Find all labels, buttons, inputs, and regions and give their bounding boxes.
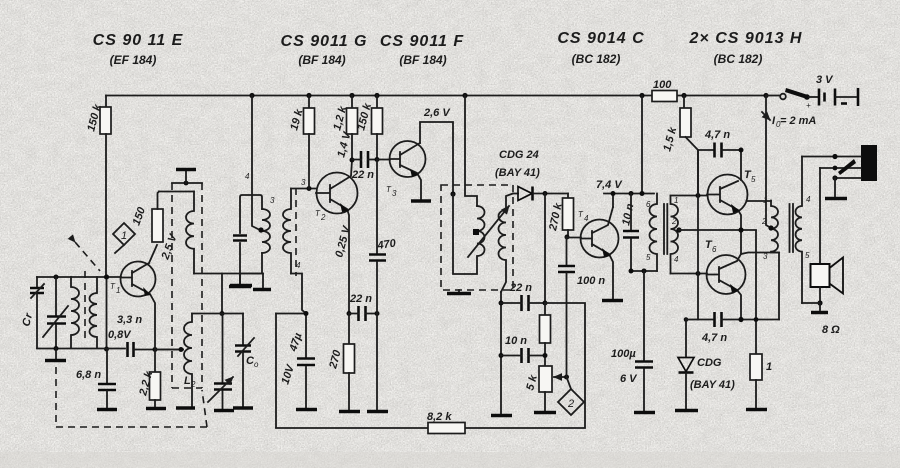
- ground under Co: [233, 406, 253, 409]
- svg-text:o: o: [254, 360, 259, 369]
- resistor 150k screen: [355, 93, 382, 160]
- svg-text:1: 1: [766, 361, 772, 373]
- ground speaker: [811, 311, 828, 314]
- wire T4 base stub: [567, 237, 582, 239]
- ground jack: [825, 197, 847, 200]
- svg-text:3: 3: [392, 189, 397, 198]
- wire T6 base: [671, 271, 708, 276]
- svg-text:6: 6: [712, 245, 717, 254]
- wire jack to speaker: [819, 168, 821, 264]
- capacitor 22n interstage: [351, 151, 380, 181]
- svg-text:4: 4: [806, 195, 811, 204]
- resistor 8.2k: [427, 411, 465, 434]
- potentiometer 5k volume: [524, 366, 566, 411]
- svg-text:2: 2: [761, 217, 767, 226]
- svg-text:4: 4: [584, 214, 589, 223]
- capacitor 10n driver: [620, 191, 639, 271]
- wire collector to osc coil top: [159, 191, 194, 193]
- ground under osc gang: [214, 409, 234, 412]
- dashed IF1 screen: [295, 188, 297, 276]
- wire ground line IF2 secondary: [499, 292, 504, 414]
- svg-text:2: 2: [671, 217, 677, 226]
- wire 470 line to ground: [376, 314, 378, 411]
- title CS 90 11 E: [93, 32, 184, 67]
- svg-text:6: 6: [646, 200, 651, 209]
- node rail IF1 feed: [249, 93, 254, 98]
- title 2x CS 9013 H: [689, 30, 803, 66]
- resistor 270 emitter: [327, 314, 354, 411]
- diode CDG bottom: [678, 320, 735, 410]
- wire T6 collector to primary: [741, 253, 779, 320]
- svg-text:(BC 182): (BC 182): [714, 52, 763, 66]
- svg-text:2: 2: [190, 380, 196, 389]
- wire detector output down: [544, 194, 546, 304]
- ground antenna: [45, 349, 66, 361]
- svg-text:4,7 n: 4,7 n: [701, 332, 727, 344]
- svg-text:CS 9011 F: CS 9011 F: [380, 33, 465, 50]
- inductor IF2 primary: [453, 194, 485, 274]
- svg-text:4: 4: [674, 255, 679, 264]
- diode CDG 24 detector: [495, 149, 568, 201]
- wire rail to IF1 tap: [245, 96, 260, 231]
- svg-text:(BF 184): (BF 184): [399, 53, 446, 67]
- svg-text:22 n: 22 n: [349, 293, 372, 305]
- wire T3 collector 2.6V: [420, 107, 453, 194]
- wire IF1 secondary to AGC node: [291, 274, 306, 314]
- ferrite core dashed: [84, 271, 86, 343]
- electrolytic 100u: [611, 271, 653, 411]
- svg-text:3: 3: [270, 196, 275, 205]
- node T2 collector: [335, 129, 354, 162]
- variable capacitor oscillator gang: [208, 314, 233, 410]
- capacitor 6.8n: [76, 349, 116, 408]
- node rail IF2 feed: [462, 93, 467, 98]
- switch on-off: [766, 88, 811, 110]
- ground under IF2 secondary line: [491, 414, 512, 417]
- node rail battery: [763, 93, 768, 98]
- svg-text:4: 4: [245, 172, 250, 181]
- svg-text:22 n: 22 n: [509, 282, 532, 294]
- title CS 9011 F: [380, 33, 465, 67]
- ground under 270: [339, 410, 360, 413]
- wire bias line down to 6.8n: [104, 277, 109, 352]
- battery 3V: [809, 74, 858, 106]
- svg-text:8,2 k: 8,2 k: [427, 411, 452, 423]
- transistor T4: [578, 207, 619, 299]
- svg-text:CDG: CDG: [697, 357, 722, 369]
- svg-text:1: 1: [674, 196, 678, 205]
- capacitor 4.7n T6 feedback: [684, 274, 779, 345]
- loudspeaker: [802, 258, 843, 337]
- diamond test point 1: [113, 223, 135, 253]
- wire oscillator bottom: [194, 273, 263, 275]
- svg-text:4: 4: [296, 261, 301, 270]
- svg-text:(BAY 41): (BAY 41): [690, 379, 735, 391]
- wire antenna top node: [37, 275, 121, 280]
- node rail bias feed: [681, 93, 686, 98]
- wire 7.4V collector line: [596, 179, 654, 207]
- resistor AF filter: [540, 303, 551, 366]
- svg-text:(BF 184): (BF 184): [298, 53, 345, 67]
- capacitor 22n emitter bypass: [347, 293, 380, 321]
- svg-text:L: L: [184, 375, 191, 387]
- transistor T2: [315, 160, 358, 314]
- wire secondary tap to emitters: [679, 227, 756, 254]
- ground T4 emitter: [602, 299, 623, 302]
- transistor T1: [110, 245, 157, 349]
- transistor T6: [705, 239, 746, 320]
- capacitor 10n AF: [501, 335, 545, 363]
- ground T3 emitter: [411, 199, 431, 202]
- driver transformer primary: [646, 194, 657, 272]
- node IF2 primary bottom feed: [450, 191, 455, 196]
- dashed gang coupling arrow: [75, 242, 100, 271]
- resistor 19k: [288, 93, 314, 189]
- transistor T3: [386, 141, 426, 199]
- svg-text:2: 2: [567, 398, 574, 410]
- ground under 5k: [534, 411, 556, 414]
- variable capacitor tuning gang (antenna): [43, 277, 68, 348]
- svg-text:5: 5: [646, 253, 651, 262]
- svg-text:2,6 V: 2,6 V: [423, 107, 451, 119]
- electrolytic 47u AGC: [276, 311, 315, 408]
- title CS 9014 C: [557, 30, 644, 66]
- transistor T5: [707, 169, 771, 231]
- output transformer secondary: [796, 157, 811, 304]
- svg-text:5: 5: [751, 175, 756, 184]
- wire padder branch: [220, 274, 225, 317]
- svg-text:2× CS 9013 H: 2× CS 9013 H: [689, 30, 803, 47]
- wire 150k down to base node: [105, 134, 107, 277]
- ground on can top: [176, 170, 196, 186]
- svg-text:3,3 n: 3,3 n: [117, 314, 142, 326]
- node T4 base: [565, 235, 570, 240]
- capacitor 3.3n series: [108, 314, 183, 357]
- wire T2 base: [291, 178, 316, 191]
- capacitor 4.7n T5 feedback: [698, 129, 744, 196]
- label 0.25V: [333, 223, 353, 258]
- trimmer capacitor Co: [235, 314, 259, 408]
- resistor 150 oscillator collector: [131, 192, 181, 262]
- svg-text:1: 1: [763, 196, 767, 205]
- resistor 270k: [547, 194, 574, 238]
- inductor IF1 secondary: [270, 189, 301, 274]
- wire battery line to output tap: [762, 96, 816, 229]
- ground under 1 ohm: [746, 408, 767, 411]
- ground IF1: [230, 274, 252, 286]
- svg-text:= 2 mA: = 2 mA: [780, 115, 816, 127]
- capacitor 22n AF top: [501, 282, 548, 311]
- svg-text:3: 3: [301, 178, 306, 187]
- svg-text:3 V: 3 V: [816, 74, 834, 86]
- inductor L3 oscillator coil: [186, 192, 194, 274]
- svg-text:4,7 n: 4,7 n: [704, 129, 730, 141]
- wire L2 top run: [192, 313, 243, 315]
- wire T5 base: [671, 193, 708, 198]
- tuning arrow IF2: [468, 206, 509, 257]
- svg-text:2: 2: [320, 213, 326, 222]
- svg-text:CS 9011 G: CS 9011 G: [281, 33, 368, 50]
- driver transformer secondary: [671, 196, 682, 274]
- wire feedback 8.2k bottom rail: [276, 303, 585, 428]
- earphone jack: [802, 145, 877, 197]
- svg-text:1: 1: [121, 230, 127, 242]
- svg-text:6 V: 6 V: [620, 373, 638, 385]
- node emitter T1: [153, 347, 158, 352]
- capacitor 100n coupling: [558, 237, 605, 377]
- ground under 47u: [296, 408, 317, 411]
- svg-text:(BAY 41): (BAY 41): [495, 167, 540, 179]
- IF transformer 1 tank: [233, 195, 270, 274]
- ground under 2.2k: [146, 407, 166, 410]
- wire emitter resistor line: [755, 231, 757, 354]
- inductor L2 oscillator tank coil: [184, 314, 196, 408]
- resistor 100 rail: [652, 79, 677, 102]
- inductor IF2 secondary: [499, 194, 514, 293]
- output transformer primary: [761, 196, 779, 261]
- inductor L1b coupling winding: [90, 277, 97, 348]
- resistor 2.2k emitter: [137, 350, 160, 408]
- svg-text:5: 5: [805, 251, 810, 260]
- capacitor 470: [369, 160, 397, 314]
- svg-text:3: 3: [763, 252, 768, 261]
- resistor 1 ohm: [750, 354, 772, 408]
- svg-text:22 n: 22 n: [351, 169, 374, 181]
- ground oscillator bottom: [229, 274, 271, 290]
- wire driver primary bottom: [629, 269, 658, 274]
- wire L2 tap to emitter node: [155, 347, 184, 352]
- svg-text:7,4 V: 7,4 V: [596, 179, 623, 191]
- ground under 470 line: [367, 410, 388, 413]
- resistor 150k (AGC feed): [85, 96, 111, 135]
- output transformer core: [790, 204, 794, 252]
- svg-text:(EF 184): (EF 184): [110, 53, 157, 67]
- svg-text:(BC 182): (BC 182): [572, 52, 621, 66]
- svg-text:6,8 n: 6,8 n: [76, 369, 101, 381]
- wire rail into IF2: [465, 96, 477, 207]
- inductor L1 antenna tuned winding: [71, 277, 79, 348]
- ground under 100u: [634, 411, 655, 414]
- svg-text:10 n: 10 n: [505, 335, 527, 347]
- wire AGC return to bottom rail: [275, 314, 277, 428]
- resistor 1.2k: [331, 93, 357, 160]
- title CS 9011 G: [281, 33, 368, 67]
- svg-text:100: 100: [653, 79, 672, 91]
- diamond test point 2: [558, 375, 584, 416]
- svg-text:100 n: 100 n: [577, 275, 605, 287]
- driver transformer core: [664, 204, 667, 254]
- svg-text:CDG 24: CDG 24: [499, 149, 539, 161]
- svg-text:CS 9014 C: CS 9014 C: [557, 30, 644, 47]
- wire T3 base: [377, 159, 390, 161]
- svg-text:100µ: 100µ: [611, 348, 636, 360]
- node rail driver feed: [639, 93, 644, 196]
- node base T1 junction: [104, 275, 109, 280]
- svg-text:8 Ω: 8 Ω: [822, 324, 840, 336]
- dashed front-end boundary: [56, 367, 207, 427]
- ground under L2: [176, 406, 195, 409]
- svg-text:+: +: [806, 101, 811, 110]
- svg-text:0,8V: 0,8V: [108, 329, 132, 341]
- svg-text:CS 90 11 E: CS 90 11 E: [93, 32, 184, 49]
- ground under diode: [675, 409, 698, 412]
- svg-text:1: 1: [116, 286, 120, 295]
- trimmer capacitor Cr: [20, 277, 44, 348]
- resistor 1.5k bias: [661, 96, 698, 274]
- oscillator shield can dashed: [172, 183, 202, 388]
- ground under 6.8n: [97, 408, 117, 411]
- IF transformer 2 shield dashed: [441, 185, 513, 290]
- node detector output: [543, 191, 548, 196]
- wire top supply rail: [106, 95, 766, 97]
- ground under IF2: [447, 290, 471, 294]
- wire emitter bottom run: [37, 346, 125, 351]
